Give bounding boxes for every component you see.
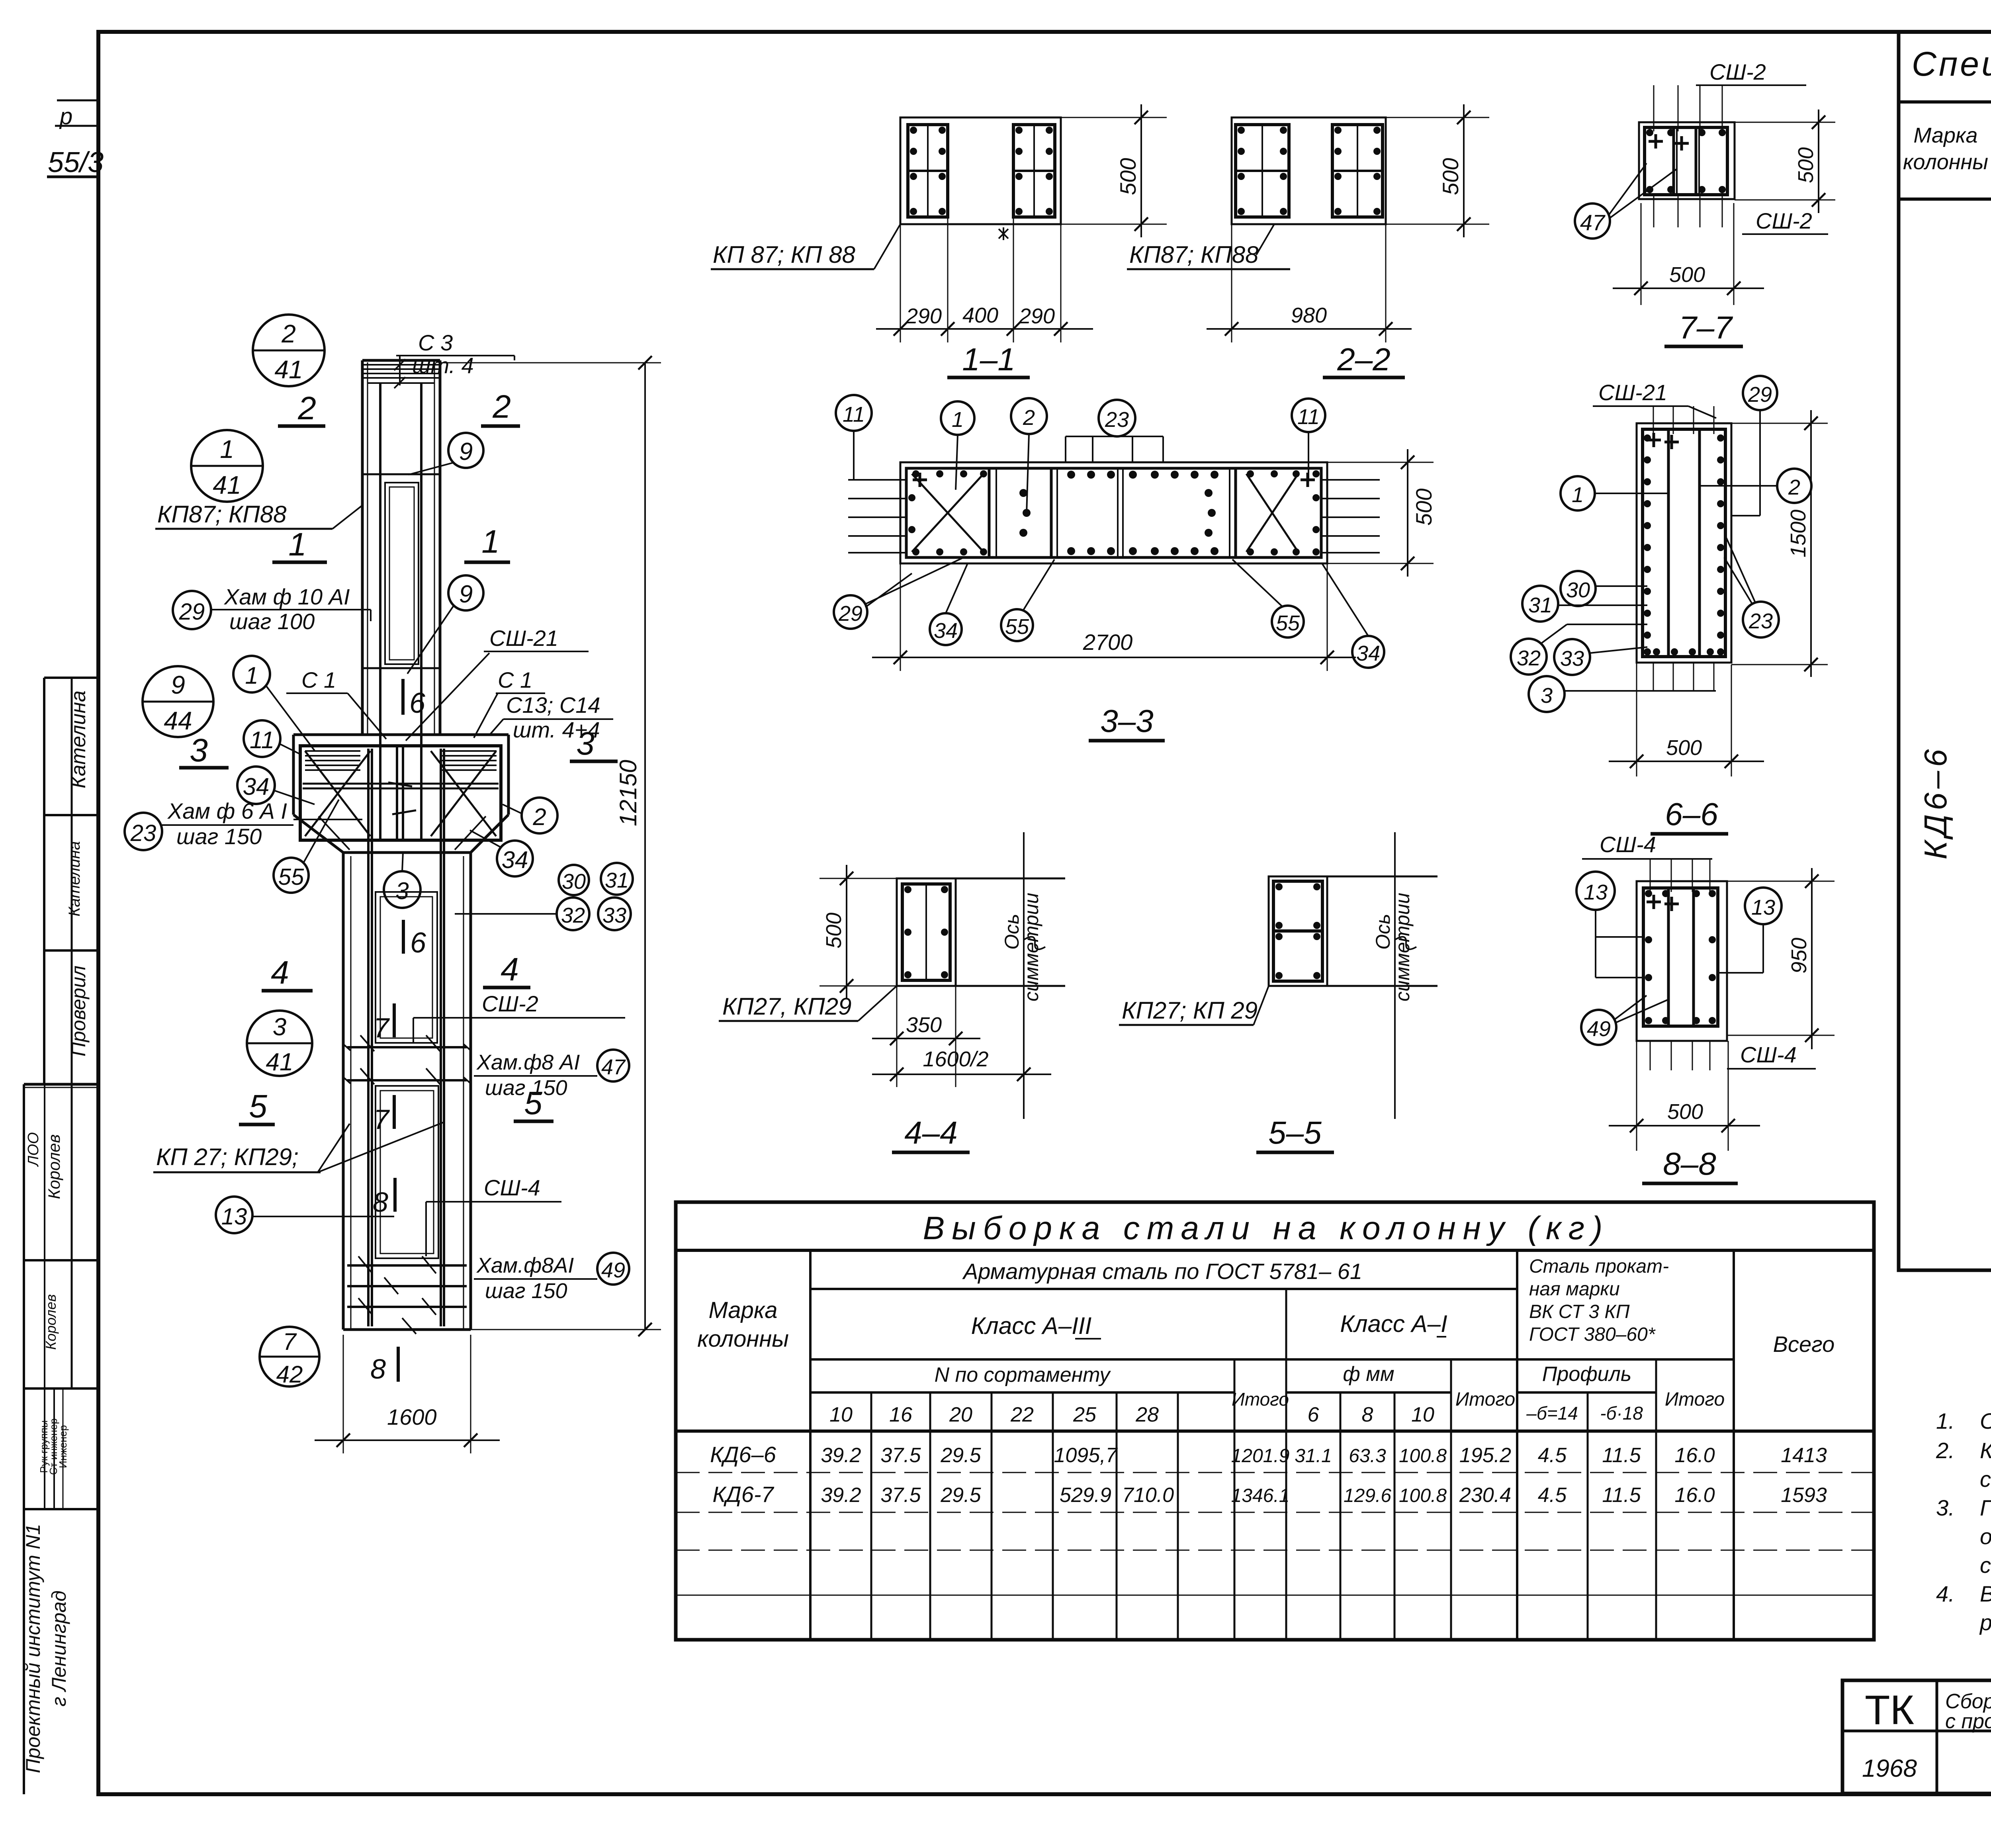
section 3-3 narrow cell left <box>1019 468 1057 557</box>
stamp text: Королев signature <box>45 1134 63 1199</box>
callout circle 23 with Хом ф6 label <box>125 798 293 850</box>
section 3-3 right branch cell <box>1246 470 1320 555</box>
section 8-8 outer rect <box>1637 881 1727 1041</box>
mesh line 9 upper <box>363 473 439 475</box>
steel table header Марка колонны <box>697 1297 789 1352</box>
svg-text:950: 950 <box>1787 938 1811 974</box>
svg-text:25: 25 <box>1073 1403 1097 1426</box>
section 6-6 bars below <box>1653 663 1714 691</box>
section 3-3 callout 2 <box>1011 398 1047 514</box>
svg-text:29.5: 29.5 <box>940 1484 981 1507</box>
asterisk mark under 1-1 <box>999 227 1008 240</box>
section 5-5 outer rect <box>1269 876 1438 986</box>
bracket mid horizontal mesh C1 <box>293 784 499 819</box>
svg-text:шт. 4+4: шт. 4+4 <box>513 717 600 742</box>
section 1-1 dims 290 400 290 <box>876 217 1093 342</box>
svg-text:4.5: 4.5 <box>1538 1444 1567 1467</box>
svg-text:10: 10 <box>1411 1403 1434 1426</box>
svg-text:42: 42 <box>276 1361 303 1388</box>
fraction circle 2/41 <box>253 315 325 386</box>
svg-text:31: 31 <box>605 868 629 892</box>
section 1-1 dim 500 right <box>1061 104 1167 237</box>
svg-text:КД6-7: КД6-7 <box>712 1482 774 1507</box>
note 2 <box>1936 1438 1991 1492</box>
svg-text:33: 33 <box>1560 647 1584 671</box>
svg-text:1346.1: 1346.1 <box>1231 1485 1290 1506</box>
svg-text:6–6: 6–6 <box>1665 796 1718 832</box>
steel table row КД6-7 <box>712 1482 1827 1507</box>
spec table rotated КД6-6 left <box>1918 745 1953 860</box>
steel table header Класс А-III <box>971 1312 1101 1339</box>
section 3-3 outer rect <box>900 462 1327 563</box>
steel table vertical lines <box>810 1250 1734 1640</box>
mark 8 below column <box>370 1347 398 1385</box>
foot hoop bands <box>347 1256 467 1334</box>
section 6-6 callout 1 <box>1561 476 1668 510</box>
section 8-8 dim 500 bottom <box>1609 1041 1760 1151</box>
svg-text:1500: 1500 <box>1786 510 1810 557</box>
steel table header Всего <box>1773 1332 1835 1357</box>
svg-text:13: 13 <box>1584 880 1608 904</box>
label КП27 КП29 elevation with leaders <box>153 1122 444 1172</box>
stamp text: signature squiggle <box>43 1294 59 1350</box>
section 6-6 callouts 32 33 <box>1511 624 1647 675</box>
svg-text:23: 23 <box>130 820 156 846</box>
section 8-8 label СШ-4 bottom <box>1727 1042 1816 1069</box>
label C13 C14 шт 4+4 <box>490 692 613 742</box>
svg-text:9: 9 <box>459 581 473 608</box>
section 2-2 dim 500 right <box>1386 104 1489 237</box>
section 3-3 callout 34 left <box>930 563 968 645</box>
bracket inner thick frame <box>300 746 501 840</box>
svg-text:1600/2: 1600/2 <box>923 1047 988 1071</box>
svg-text:55: 55 <box>1276 611 1300 635</box>
svg-text:1.: 1. <box>1936 1408 1955 1433</box>
stamp text: Проверил <box>67 966 90 1056</box>
section 6-6 dim 1500 right <box>1731 410 1828 677</box>
svg-text:34: 34 <box>502 847 528 873</box>
svg-text:8: 8 <box>370 1353 386 1385</box>
C3 label and leader <box>396 330 514 385</box>
callout circle 34 right of bracket <box>470 830 533 876</box>
svg-text:8–8: 8–8 <box>1663 1146 1716 1181</box>
svg-text:1095,7: 1095,7 <box>1054 1444 1118 1467</box>
svg-text:1413: 1413 <box>1781 1444 1827 1467</box>
label СШ-21 with leader <box>406 626 589 741</box>
margin mark P with lines (top-left outside frame) <box>55 100 98 129</box>
svg-text:1: 1 <box>288 526 307 563</box>
svg-text:23: 23 <box>1748 609 1773 633</box>
bracket left flank hatch <box>305 751 360 770</box>
svg-text:1: 1 <box>1572 483 1584 507</box>
svg-text:3: 3 <box>273 1013 286 1041</box>
svg-text:С 1: С 1 <box>301 667 336 692</box>
svg-text:500: 500 <box>1794 147 1818 183</box>
section 7-7 bottom label СШ-2 <box>1742 208 1828 234</box>
section 4-4 title <box>892 1115 970 1152</box>
svg-text:350: 350 <box>906 1013 942 1037</box>
label Хом ф8 АI шаг 150 with circle 47 <box>474 1050 629 1100</box>
section 3-3 callout 23 with bracket <box>1066 400 1163 462</box>
svg-text:4–4: 4–4 <box>904 1115 957 1150</box>
svg-text:Хам.ф8АI: Хам.ф8АI <box>476 1254 574 1277</box>
svg-text:13: 13 <box>221 1204 247 1230</box>
svg-text:СШ-21: СШ-21 <box>489 626 558 651</box>
fraction circle 9/44 <box>143 666 213 737</box>
svg-text:Сталь прокат-: Сталь прокат- <box>1529 1256 1669 1277</box>
svg-text:39.2: 39.2 <box>821 1484 861 1507</box>
svg-text:ТК: ТК <box>1865 1687 1914 1733</box>
section 8-8 label СШ-4 top <box>1582 832 1712 859</box>
svg-text:30: 30 <box>562 870 586 894</box>
svg-text:–б=14: –б=14 <box>1526 1403 1578 1424</box>
section 8-8 callout 49 <box>1581 995 1668 1045</box>
section 5-5 title <box>1256 1115 1334 1152</box>
svg-text:Итого: Итого <box>1665 1389 1725 1410</box>
svg-text:49: 49 <box>1587 1017 1611 1041</box>
svg-text:Марка: Марка <box>1913 123 1977 147</box>
section 6-6 bottom dots <box>1653 648 1714 655</box>
svg-text:16.0: 16.0 <box>1674 1484 1715 1507</box>
svg-text:6: 6 <box>410 927 426 959</box>
svg-text:Хам ф 10 АI: Хам ф 10 АI <box>223 584 350 609</box>
svg-text:33: 33 <box>602 903 626 927</box>
section 3-3 left branch cell <box>908 468 996 557</box>
svg-text:500: 500 <box>1411 489 1436 526</box>
dim 1600 bottom <box>315 1335 500 1453</box>
bracket right flank hatch <box>441 751 497 770</box>
section 6-6 title <box>1651 796 1728 834</box>
svg-text:9: 9 <box>171 671 185 699</box>
section mark 3 right <box>570 726 618 762</box>
svg-text:34: 34 <box>243 773 270 800</box>
svg-text:Ось: Ось <box>1372 914 1394 950</box>
section mark 3 left <box>179 732 229 769</box>
section 8-8 dim 950 right <box>1727 868 1835 1049</box>
section 2-2 title <box>1323 342 1405 377</box>
section 3-3 callout 1 <box>941 401 974 490</box>
svg-text:34: 34 <box>934 619 958 643</box>
svg-text:СШ-21: СШ-21 <box>1598 380 1667 405</box>
svg-text:129.6: 129.6 <box>1344 1485 1391 1506</box>
margin mark 55/3 <box>47 147 104 178</box>
section 2-2 left branch <box>1236 125 1289 217</box>
svg-text:С 1: С 1 <box>498 667 532 692</box>
svg-text:В таблице расхода материало: В таблице расхода материалов не учтен <box>1980 1581 1991 1606</box>
title block ТК logo <box>1865 1687 1914 1733</box>
svg-text:11.5: 11.5 <box>1602 1444 1641 1467</box>
svg-text:ная марки: ная марки <box>1529 1279 1620 1300</box>
svg-text:Королев: Королев <box>43 1294 59 1350</box>
section 6-6 vertical bars above <box>1653 406 1714 434</box>
svg-text:3.: 3. <box>1936 1495 1955 1520</box>
svg-text:КП 87; КП 88: КП 87; КП 88 <box>713 241 855 268</box>
section 3-3 callout 55 left <box>1001 559 1054 641</box>
svg-text:СШ-2: СШ-2 <box>1709 59 1766 84</box>
section 8-8 title <box>1642 1146 1738 1183</box>
svg-text:195.2: 195.2 <box>1459 1444 1511 1467</box>
svg-text:СШ-2: СШ-2 <box>482 991 538 1016</box>
svg-text:шаг 150: шаг 150 <box>485 1279 567 1303</box>
steel table header ф мм <box>1343 1363 1394 1386</box>
section 4-4 label КП27 КП29 <box>719 986 897 1021</box>
svg-text:8: 8 <box>1362 1403 1373 1426</box>
svg-text:СШ-4: СШ-4 <box>484 1175 540 1200</box>
section mark 5 right <box>514 1085 553 1121</box>
svg-text:500: 500 <box>1667 1100 1703 1124</box>
svg-text:20: 20 <box>949 1403 972 1426</box>
svg-text:шаг 150: шаг 150 <box>176 824 262 849</box>
callout circle 29 with Хом ф10 label <box>173 584 371 634</box>
svg-text:Проектный институт N1: Проектный институт N1 <box>22 1524 44 1773</box>
dim 12150 right <box>440 356 661 1336</box>
svg-text:230.4: 230.4 <box>1459 1484 1511 1507</box>
svg-text:290: 290 <box>906 304 942 328</box>
svg-text:28: 28 <box>1135 1403 1159 1426</box>
bracket diagonals <box>305 751 496 850</box>
svg-text:500: 500 <box>822 913 846 948</box>
svg-text:6: 6 <box>1308 1403 1319 1426</box>
stamp text: г Ленинград <box>48 1590 70 1706</box>
svg-text:Итого: Итого <box>1232 1389 1289 1410</box>
svg-text:опалубку коланн маркированные: опалубку коланн маркированные краской ко… <box>1980 1524 1991 1549</box>
svg-text:1201.9: 1201.9 <box>1231 1445 1290 1467</box>
section mark 4 left <box>262 954 313 991</box>
svg-text:500: 500 <box>1438 158 1463 195</box>
section 4-4 axis of symmetry <box>1001 832 1045 1119</box>
section 6-6 callout 3 <box>1529 676 1716 712</box>
svg-text:710.0: 710.0 <box>1122 1484 1174 1507</box>
mark 6 upper <box>403 679 426 719</box>
svg-text:Инженер: Инженер <box>57 1425 69 1468</box>
svg-text:49: 49 <box>601 1258 625 1282</box>
section 4-4 dim 1600/2 <box>872 1047 1051 1081</box>
label КП87 КП88 elevation <box>155 501 362 529</box>
section 3-3 callout 29 <box>834 557 964 629</box>
svg-text:1: 1 <box>220 435 234 463</box>
svg-text:1593: 1593 <box>1781 1484 1827 1507</box>
callout circle 55 elevation <box>274 800 339 893</box>
svg-text:шт. 4: шт. 4 <box>412 353 474 378</box>
svg-text:Хам.ф8 АI: Хам.ф8 АI <box>476 1050 580 1074</box>
section mark 4 right with СШ-2 <box>413 951 625 1043</box>
svg-text:32: 32 <box>561 903 585 927</box>
stamp text: ЛОО <box>25 1132 42 1167</box>
svg-text:Кателина: Кателина <box>67 690 90 788</box>
steel table header Профиль <box>1542 1363 1632 1386</box>
svg-text:55: 55 <box>1005 615 1029 639</box>
svg-text:2: 2 <box>281 319 296 348</box>
callout circle 3 below bracket <box>384 853 420 908</box>
svg-text:С13; С14: С13; С14 <box>506 692 600 718</box>
lower shaft rebar verticals <box>368 749 444 1326</box>
section 8-8 callout 13 left <box>1576 872 1643 978</box>
note 3 <box>1936 1495 1991 1578</box>
svg-text:16: 16 <box>889 1403 912 1426</box>
svg-text:1968: 1968 <box>1862 1755 1917 1782</box>
svg-text:ВК СТ 3 КП: ВК СТ 3 КП <box>1529 1301 1630 1322</box>
svg-text:Каркасы и спецификации на о: Каркасы и спецификации на отдельные <box>1980 1438 1991 1463</box>
svg-text:КП87; КП88: КП87; КП88 <box>1129 241 1259 268</box>
svg-text:2–2: 2–2 <box>1337 342 1390 377</box>
steel table header Итого 3 <box>1665 1389 1725 1410</box>
section 3-3 left bar hooks <box>848 480 906 553</box>
svg-text:12150: 12150 <box>615 760 642 826</box>
svg-text:100.8: 100.8 <box>1399 1485 1447 1506</box>
svg-text:7: 7 <box>374 1012 390 1043</box>
section 3-3 title <box>1089 703 1165 741</box>
section 3-3 callout 34 right <box>1322 563 1384 668</box>
steel table header Итого 1 <box>1232 1389 1289 1410</box>
svg-text:-б·18: -б·18 <box>1600 1403 1643 1424</box>
svg-text:г Ленинград: г Ленинград <box>48 1590 70 1706</box>
svg-text:СШ-2: СШ-2 <box>1756 208 1812 233</box>
section 3-3 dim 500 right <box>1327 449 1436 577</box>
section 4-4 outer rect <box>897 878 1065 986</box>
title block year 1968 <box>1862 1755 1917 1782</box>
svg-text:Всего: Всего <box>1773 1332 1835 1357</box>
section 6-6 callout 2 <box>1700 469 1811 503</box>
steel table outer border <box>676 1202 1874 1640</box>
svg-text:11.5: 11.5 <box>1602 1484 1641 1507</box>
svg-text:37.5: 37.5 <box>880 1444 921 1467</box>
fraction circle 3/41 <box>247 1011 312 1076</box>
section 8-8 bars above <box>1650 859 1710 892</box>
svg-text:32: 32 <box>1517 646 1541 670</box>
svg-text:Спецификация арматурных издели: Спецификация арматурных изделий <box>1912 45 1991 83</box>
svg-text:1600: 1600 <box>387 1404 437 1430</box>
label C1 right <box>474 667 545 738</box>
section 8-8 inner frame <box>1643 888 1718 1026</box>
steel table title <box>923 1210 1610 1246</box>
steel table row КД6-6 <box>710 1442 1827 1467</box>
svg-text:2: 2 <box>1788 475 1800 499</box>
svg-text:4: 4 <box>501 951 519 988</box>
lower window 1 <box>374 892 437 1043</box>
section 6-6 dim 500 bottom <box>1609 663 1764 776</box>
svg-text:симметрии: симметрии <box>1020 893 1042 1001</box>
bracket vertical bars <box>388 746 416 840</box>
svg-text:290: 290 <box>1019 304 1055 328</box>
svg-text:3: 3 <box>395 878 409 904</box>
note 1 <box>1936 1408 1991 1433</box>
section 6-6 right dots <box>1717 434 1724 655</box>
svg-text:колонны: колонны <box>697 1326 789 1352</box>
section 6-6 outer rect <box>1637 423 1731 663</box>
mesh line 9 lower <box>363 667 439 669</box>
svg-text:11: 11 <box>250 727 274 753</box>
svg-text:2.: 2. <box>1936 1438 1955 1463</box>
svg-text:1: 1 <box>481 524 500 560</box>
section 1-1 right branch <box>1013 125 1055 217</box>
section 3-3 narrow cell right <box>1205 468 1236 557</box>
svg-text:7–7: 7–7 <box>1679 310 1733 345</box>
svg-text:СШ-4: СШ-4 <box>1740 1042 1797 1067</box>
section 1-1 label КП87 КП88 <box>711 224 900 269</box>
svg-text:31: 31 <box>1528 593 1552 617</box>
section 6-6 inner frame <box>1643 429 1725 657</box>
section 5-5 axis of symmetry <box>1372 832 1416 1119</box>
section 5-5 label КП27 КП29 <box>1119 986 1269 1025</box>
section 3-3 middle opening dots <box>1067 468 1218 557</box>
svg-text:ЛОО: ЛОО <box>25 1132 42 1167</box>
section 3-3 inner frame <box>906 468 1321 557</box>
svg-text:3: 3 <box>1541 684 1553 708</box>
section 7-7 callout 47 <box>1575 163 1676 239</box>
svg-text:10: 10 <box>829 1403 853 1426</box>
stamp text: Инженер <box>57 1425 69 1468</box>
svg-text:529.9: 529.9 <box>1060 1484 1111 1507</box>
svg-text:9: 9 <box>459 438 473 465</box>
svg-text:29: 29 <box>179 599 205 625</box>
steel table header Класс А-I <box>1340 1310 1447 1337</box>
svg-text:Марка: Марка <box>708 1297 777 1323</box>
svg-text:30: 30 <box>1566 578 1590 602</box>
steel table header Сталь прокатная <box>1529 1256 1669 1345</box>
svg-text:29: 29 <box>838 602 863 626</box>
label СШ-4 elevation <box>426 1175 561 1256</box>
svg-text:Класс А–I: Класс А–I <box>1340 1310 1447 1337</box>
svg-text:СШ-4: СШ-4 <box>1600 832 1656 857</box>
upper shaft outline <box>362 360 440 735</box>
svg-text:22: 22 <box>1010 1403 1034 1426</box>
svg-text:13: 13 <box>1751 896 1775 919</box>
svg-text:Королев: Королев <box>45 1134 63 1199</box>
section 6-6 callout 29 <box>1731 376 1777 516</box>
section mark 1 left <box>272 526 327 563</box>
section 8-8 callout 13 right <box>1718 888 1782 973</box>
svg-text:колонны: колонны <box>1903 150 1988 174</box>
section 6-6 label СШ-21 <box>1593 380 1716 418</box>
section 7-7 dim 500 bottom <box>1613 203 1764 305</box>
steel table header N по сортаменту <box>935 1363 1111 1386</box>
svg-text:Профиль: Профиль <box>1542 1363 1632 1386</box>
section 3-3 dim 2700 <box>872 563 1356 671</box>
svg-text:2: 2 <box>532 804 546 830</box>
spec table title <box>1912 45 1991 106</box>
svg-text:с проходами в уровне подкра: с проходами в уровне подкрановых балок <box>1945 1710 1991 1733</box>
svg-text:7: 7 <box>283 1328 297 1355</box>
svg-text:39.2: 39.2 <box>821 1444 861 1467</box>
svg-text:11: 11 <box>1297 405 1320 429</box>
mark 6 lower <box>403 920 426 959</box>
label C1 left <box>286 667 386 739</box>
label Хом ф8АI шаг 150 with circle 49 <box>474 1253 629 1303</box>
svg-text:шаг 100: шаг 100 <box>229 609 315 634</box>
section 3-3 callout 11 left <box>836 395 872 480</box>
svg-text:3–3: 3–3 <box>1100 703 1153 739</box>
svg-text:Арматурная сталь по ГОСТ 5: Арматурная сталь по ГОСТ 5781– 61 <box>962 1259 1362 1284</box>
svg-text:Ось: Ось <box>1001 914 1023 950</box>
section mark 5 left <box>239 1088 275 1124</box>
svg-text:44: 44 <box>164 706 192 735</box>
stamp text: Проектный институт <box>22 1524 44 1773</box>
svg-text:Кателина: Кателина <box>66 841 83 916</box>
section 6-6 callout 23 <box>1724 538 1779 638</box>
section 2-2 outer rect <box>1232 117 1386 224</box>
section 7-7 outer rect <box>1639 122 1735 199</box>
svg-text:N по сортаменту: N по сортаменту <box>935 1363 1111 1386</box>
section 7-7 title <box>1664 310 1743 346</box>
svg-text:100.8: 100.8 <box>1399 1445 1447 1467</box>
callout circles 32 33 <box>455 898 631 930</box>
section 1-1 left branch <box>908 125 948 217</box>
svg-text:ГОСТ 380–60*: ГОСТ 380–60* <box>1529 1324 1656 1345</box>
section 7-7 top label СШ-2 <box>1696 59 1806 85</box>
svg-text:6: 6 <box>409 687 426 719</box>
svg-text:2: 2 <box>1023 406 1035 430</box>
svg-text:1–1: 1–1 <box>962 342 1015 377</box>
